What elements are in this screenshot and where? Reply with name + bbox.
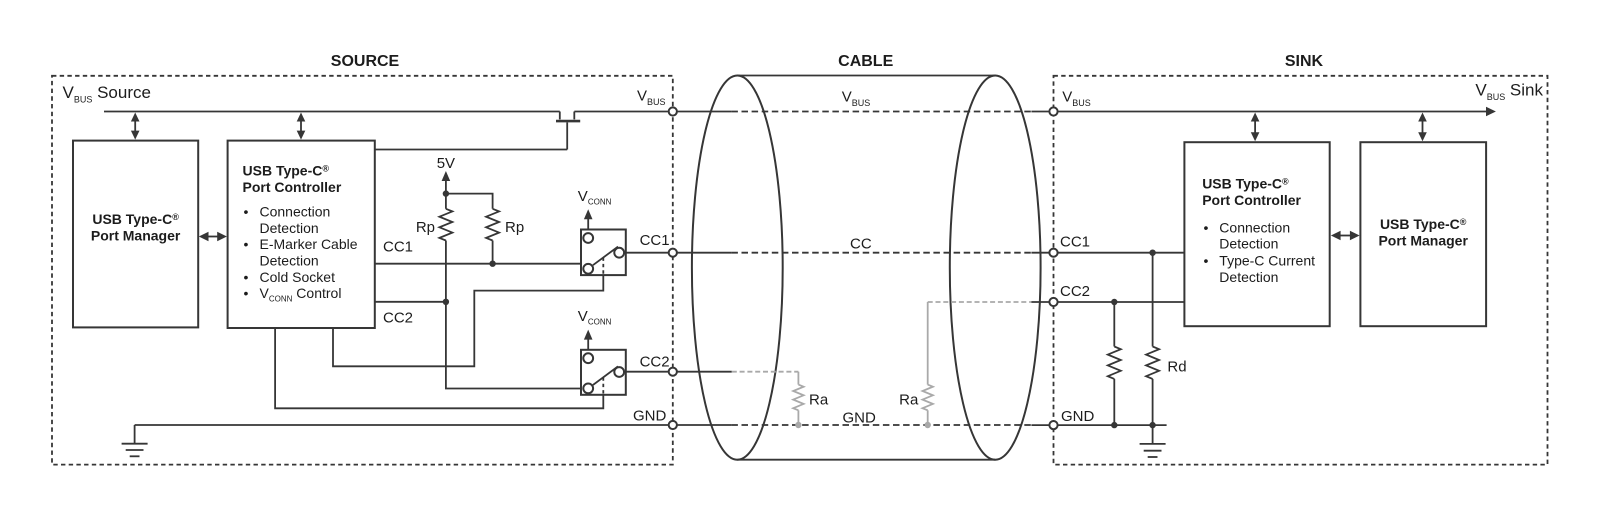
wire FET gate to port controller <box>375 149 567 151</box>
svg-text:Port Controller: Port Controller <box>1202 192 1301 208</box>
wire VCONN control to S2 <box>275 328 603 408</box>
junction Rp1 CC2 <box>443 299 449 305</box>
junction 5V node <box>443 190 449 196</box>
svg-text:E-Marker Cable: E-Marker Cable <box>260 236 358 252</box>
connector pin CC1 (source) <box>669 249 677 257</box>
wire VBUS source to connector <box>574 111 731 113</box>
arrow VCONN S1 <box>584 209 593 229</box>
block USB Type-C Port Manager (source) <box>73 141 198 328</box>
svg-text:Detection: Detection <box>260 253 319 269</box>
source dashed boundary <box>52 76 673 465</box>
resistor Rp1 <box>439 194 452 302</box>
junction GND Rd right <box>1149 422 1155 428</box>
svg-text:Cold Socket: Cold Socket <box>260 269 336 285</box>
junction GND Rd left <box>1111 422 1117 428</box>
arrow VBUS to port manager <box>131 113 140 140</box>
wire CC1 switch to connector <box>626 252 732 254</box>
arrow VCONN S2 <box>584 330 593 350</box>
cable body bottom line <box>737 459 995 461</box>
wire CC2 to switch S2 <box>446 302 581 389</box>
svg-text:Rp: Rp <box>416 219 435 236</box>
svg-text:Ra: Ra <box>899 392 919 409</box>
junction Rp2 CC1 <box>489 261 495 267</box>
svg-text:Detection: Detection <box>1219 236 1278 252</box>
svg-text:GND: GND <box>843 409 877 426</box>
svg-text:VBUS Sink: VBUS Sink <box>1475 80 1543 102</box>
wire GND source <box>135 424 732 426</box>
svg-text:Connection: Connection <box>1219 219 1290 235</box>
svg-text:SOURCE: SOURCE <box>331 53 400 70</box>
arrow sink controller to manager <box>1331 231 1360 241</box>
wire VCONN control to S1 <box>333 275 603 366</box>
connector pin VBUS (sink) <box>1049 107 1057 115</box>
wire VBUS source <box>104 111 560 113</box>
wire CC1 controller to switch S1 <box>375 263 581 265</box>
svg-text:CC2: CC2 <box>383 310 413 327</box>
wire CC2 controller <box>375 301 446 303</box>
svg-text:•: • <box>244 236 249 252</box>
svg-text:CC: CC <box>850 235 872 252</box>
svg-text:Rp: Rp <box>505 219 524 236</box>
wire VBUS cable (dashed) <box>731 111 1031 113</box>
switch S1 (CC1 / VCONN) <box>581 230 626 276</box>
svg-text:•: • <box>244 285 249 301</box>
svg-text:•: • <box>244 269 249 285</box>
svg-text:•: • <box>244 204 249 220</box>
arrow 5V supply <box>442 171 451 194</box>
svg-text:Port Controller: Port Controller <box>243 179 342 195</box>
arrow port manager to port controller <box>199 232 227 242</box>
svg-text:Port Manager: Port Manager <box>91 228 181 244</box>
wire CC cable (dashed) <box>731 252 1031 254</box>
connector pin GND (source) <box>669 421 677 429</box>
resistor Rp2 <box>486 209 499 264</box>
svg-text:USB Type-C®: USB Type-C® <box>1202 176 1289 192</box>
svg-text:CC1: CC1 <box>1060 234 1090 251</box>
arrow VBUS to sink port controller <box>1251 113 1260 142</box>
svg-text:5V: 5V <box>437 155 455 172</box>
svg-text:USB Type-C®: USB Type-C® <box>92 211 179 227</box>
transistor Q1 VBUS power FET <box>556 112 580 150</box>
svg-text:Connection: Connection <box>260 204 331 220</box>
wire GND sink <box>1031 424 1166 426</box>
svg-text:Detection: Detection <box>260 220 319 236</box>
svg-text:Type-C Current: Type-C Current <box>1219 253 1315 269</box>
connector pin CC1 (sink) <box>1049 249 1057 257</box>
svg-text:USB Type-C®: USB Type-C® <box>243 163 330 179</box>
arrow VBUS to port controller <box>297 113 306 140</box>
sink dashed boundary <box>1054 76 1548 465</box>
wire VBUS sink with arrow <box>1031 107 1496 117</box>
ground symbol (source) <box>122 425 148 456</box>
cable right ellipse <box>950 76 1041 460</box>
resistor Ra right (cable VCONN termination) <box>923 302 1032 425</box>
svg-text:CC1: CC1 <box>383 239 413 256</box>
connector pin VBUS (source) <box>669 107 677 115</box>
svg-text:GND: GND <box>633 407 667 424</box>
wire CC2 sink <box>1031 301 1184 303</box>
cable left ellipse <box>692 76 783 460</box>
junction CC2 Rd <box>1111 299 1117 305</box>
svg-text:CC1: CC1 <box>640 232 670 249</box>
wire 5V to Rp2 <box>446 194 493 209</box>
arrow VBUS to sink port manager <box>1418 113 1427 142</box>
svg-text:•: • <box>1204 253 1209 269</box>
resistor Rd on CC2 <box>1108 302 1121 425</box>
svg-text:•: • <box>1204 219 1209 235</box>
block USB Type-C Port Manager (sink) <box>1360 142 1486 326</box>
svg-text:CC2: CC2 <box>1060 283 1090 300</box>
connector pin CC2 (sink) <box>1049 298 1057 306</box>
wire CC2 switch to connector <box>626 371 732 373</box>
block USB Type-C Port Controller (sink) <box>1184 142 1329 326</box>
svg-text:Rd: Rd <box>1167 358 1186 375</box>
svg-text:SINK: SINK <box>1285 53 1324 70</box>
svg-text:CABLE: CABLE <box>838 53 893 70</box>
cable body top line <box>737 75 995 77</box>
wire GND cable (dashed) <box>731 424 1031 426</box>
svg-text:Detection: Detection <box>1219 269 1278 285</box>
resistor Rd on CC1 <box>1146 253 1159 425</box>
ground symbol (sink) <box>1140 425 1166 457</box>
connector pin GND (sink) <box>1049 421 1057 429</box>
svg-text:CC2: CC2 <box>640 354 670 371</box>
svg-text:Ra: Ra <box>809 392 829 409</box>
svg-text:GND: GND <box>1061 408 1095 425</box>
junction CC1 Rd <box>1149 250 1155 256</box>
svg-text:USB Type-C®: USB Type-C® <box>1380 216 1467 232</box>
wire CC1 sink <box>1031 252 1184 254</box>
svg-text:Port Manager: Port Manager <box>1378 233 1468 249</box>
connector pin CC2 (source) <box>669 368 677 376</box>
block USB Type-C Port Controller (source) <box>228 141 375 328</box>
resistor Ra left (cable VCONN termination) <box>732 372 804 425</box>
switch S2 (CC2 / VCONN) <box>581 350 626 395</box>
